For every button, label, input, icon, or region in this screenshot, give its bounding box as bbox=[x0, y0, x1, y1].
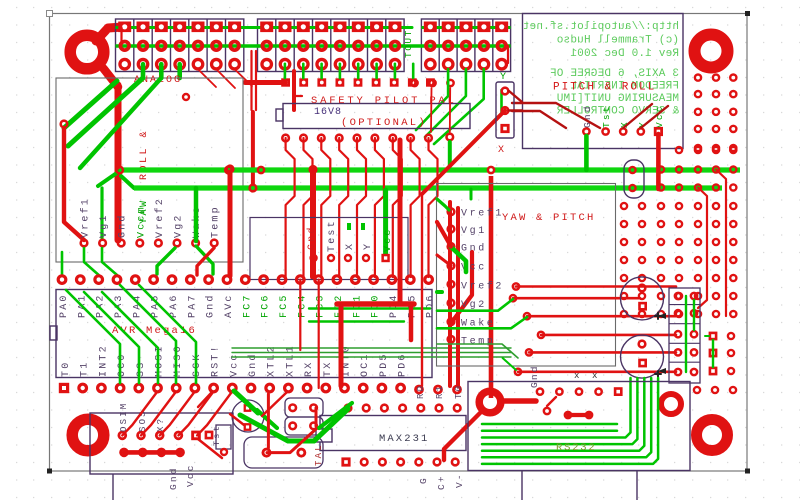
svg-text:Vccm: Vccm bbox=[136, 205, 147, 238]
green stub from IMU Gnd bbox=[584, 136, 589, 170]
label (OPTIONAL) bbox=[341, 117, 427, 129]
MAX231 top pads bbox=[345, 405, 461, 412]
label Y bbox=[500, 72, 506, 83]
pads under header J3 bbox=[411, 80, 453, 86]
ISP connector outline bbox=[90, 413, 233, 474]
extra square pads col bbox=[709, 332, 735, 376]
green bus 1 bbox=[120, 167, 740, 172]
MAX231 bottom pads bbox=[341, 457, 458, 466]
green stubs under header J1 bbox=[143, 64, 180, 78]
svg-text:C+: C+ bbox=[436, 474, 447, 490]
svg-text:Tst: Tst bbox=[212, 424, 222, 446]
svg-text:TAL: TAL bbox=[314, 443, 324, 466]
svg-text:Vref1: Vref1 bbox=[80, 197, 92, 238]
svg-text:3 AXIS, 6 DEGREE OF: 3 AXIS, 6 DEGREE OF bbox=[550, 68, 679, 80]
misc long red traces bbox=[122, 28, 509, 133]
MCU bottom row labels bbox=[61, 344, 409, 377]
svg-text:Temp: Temp bbox=[211, 205, 222, 238]
thick red power trace center bbox=[300, 140, 414, 388]
green feeds to J3 bbox=[416, 69, 502, 160]
red diag Vg1 bbox=[437, 222, 451, 266]
svg-text:OSIM: OSIM bbox=[119, 402, 129, 432]
pin header J1 (analog) bbox=[116, 19, 244, 72]
red power cross near J2 bbox=[245, 51, 302, 110]
svg-text:Vg1: Vg1 bbox=[461, 226, 487, 237]
svg-text:SCK: SCK bbox=[192, 352, 203, 377]
label ANALOG bbox=[134, 75, 182, 86]
extra pads near RS232 bbox=[544, 397, 592, 418]
MCU U1 AVR Mega16 outline bbox=[50, 290, 432, 378]
green stubs in connector bbox=[686, 296, 713, 372]
svg-text:FC4: FC4 bbox=[297, 293, 308, 318]
label X bbox=[498, 145, 504, 156]
red trace left edge bbox=[61, 121, 84, 240]
label MAX231 bbox=[379, 433, 429, 445]
red trace Vg2 feed bbox=[227, 166, 234, 276]
grid pads row 390 bbox=[694, 387, 736, 393]
pin header J3 bbox=[421, 19, 510, 72]
Vcc green drop bbox=[383, 190, 388, 254]
svg-text:Rev 1.0 Dec 2001: Rev 1.0 Dec 2001 bbox=[570, 48, 679, 60]
label RS232 bbox=[556, 442, 597, 454]
svg-text:SAFETY PILOT PAL: SAFETY PILOT PAL bbox=[311, 95, 457, 107]
green bus bridging headers bbox=[244, 28, 421, 47]
connector stubs below board bbox=[522, 471, 637, 500]
svg-text:16V8: 16V8 bbox=[314, 107, 342, 118]
IMU internal red traces bbox=[512, 103, 668, 128]
svg-text:x: x bbox=[592, 371, 597, 381]
labels below board bbox=[168, 463, 196, 490]
svg-text:T1: T1 bbox=[80, 361, 91, 377]
red traces XY to IMU bbox=[509, 91, 522, 111]
ISP pads row1 bbox=[119, 431, 201, 441]
svg-text:YAW & PITCH: YAW & PITCH bbox=[502, 212, 596, 224]
svg-text:XTL2: XTL2 bbox=[267, 344, 278, 377]
Vcc square pad bbox=[381, 254, 389, 262]
svg-text:Tst: Tst bbox=[601, 104, 612, 128]
svg-text:Vcc: Vcc bbox=[229, 352, 240, 377]
svg-text:(OPTIONAL): (OPTIONAL) bbox=[341, 117, 427, 129]
svg-text:PA7: PA7 bbox=[187, 293, 198, 318]
FC header box bbox=[250, 218, 408, 280]
via ring V1 bbox=[661, 394, 681, 414]
svg-text:Vref2: Vref2 bbox=[154, 197, 166, 238]
crystal Q1 bbox=[205, 425, 231, 455]
arrows bbox=[658, 313, 666, 374]
label YAW & PITCH bbox=[502, 212, 596, 224]
ISP pads row2 bbox=[121, 449, 184, 456]
svg-text:T0: T0 bbox=[454, 384, 464, 399]
svg-text:Gnd: Gnd bbox=[306, 225, 318, 250]
MCU top row labels bbox=[59, 293, 437, 318]
svg-text:T0: T0 bbox=[61, 361, 72, 377]
label ROLL & bbox=[139, 129, 150, 180]
extra PAL pads right bbox=[447, 134, 472, 199]
Gnd thick column bbox=[310, 166, 317, 277]
svg-text:PD5: PD5 bbox=[379, 352, 390, 377]
svg-text:(c) Trammell Hudso: (c) Trammell Hudso bbox=[557, 35, 679, 47]
svg-text:Gnd: Gnd bbox=[117, 213, 129, 238]
ISP labels bbox=[119, 402, 222, 446]
svg-text:Y: Y bbox=[363, 242, 374, 250]
svg-text:PD6: PD6 bbox=[426, 293, 437, 318]
red diag to crystal bbox=[198, 439, 222, 458]
red diag temp bbox=[197, 248, 214, 275]
svg-text:FC5: FC5 bbox=[279, 293, 290, 318]
svg-text:MAX231: MAX231 bbox=[379, 433, 429, 445]
MCU top pad row bbox=[58, 276, 432, 284]
svg-text:Vg2: Vg2 bbox=[174, 213, 185, 238]
svg-text:INT2: INT2 bbox=[98, 344, 109, 377]
bus vias bbox=[116, 167, 264, 192]
via grid right bbox=[621, 75, 737, 318]
MCU bottom pad row bbox=[59, 383, 405, 393]
svg-text:PITCH & ROLL: PITCH & ROLL bbox=[553, 82, 656, 94]
mounting hole top-right bbox=[695, 35, 728, 68]
svg-text:Gnd: Gnd bbox=[461, 243, 487, 255]
svg-text:Gnd: Gnd bbox=[247, 352, 259, 377]
red stub from IMU Vcc bbox=[656, 134, 661, 189]
svg-text:Gnd: Gnd bbox=[168, 466, 179, 490]
label XTAL bbox=[314, 443, 324, 466]
svg-text:RD: RD bbox=[416, 384, 426, 399]
svg-text:XTL1: XTL1 bbox=[285, 344, 296, 377]
red diagonals from J1 bbox=[198, 69, 252, 88]
svg-text:SS: SS bbox=[136, 361, 147, 377]
svg-text:Vcc: Vcc bbox=[185, 463, 196, 487]
RD RI TO pads bbox=[416, 384, 465, 399]
svg-text:Vref2: Vref2 bbox=[461, 280, 504, 292]
label TOUT bbox=[403, 29, 414, 58]
IC U3 MAX231 bbox=[316, 416, 466, 451]
svg-text:Vref1: Vref1 bbox=[461, 208, 504, 220]
svg-text:FC6: FC6 bbox=[261, 293, 272, 318]
green bus 2 bbox=[134, 185, 722, 190]
svg-text:MOSI: MOSI bbox=[155, 344, 166, 377]
YAW pin pads and labels bbox=[448, 208, 504, 348]
pin header J2 (servo) bbox=[258, 19, 405, 72]
green links to traces bbox=[437, 292, 527, 370]
component X1 bbox=[244, 437, 323, 468]
reset button S1 bbox=[285, 398, 323, 435]
svg-text:FC3: FC3 bbox=[316, 293, 327, 318]
red stub bus2 bbox=[251, 112, 255, 185]
RS232 connector outline bbox=[468, 382, 690, 471]
IMU notes box bbox=[523, 14, 684, 149]
capacitor C3 circle bbox=[232, 400, 264, 432]
junction x marks bbox=[574, 371, 597, 381]
svg-text:PD6: PD6 bbox=[398, 352, 409, 377]
analog pin labels bbox=[80, 197, 222, 246]
svg-text:Vg2: Vg2 bbox=[461, 300, 487, 311]
svg-text:OC1: OC1 bbox=[360, 352, 371, 377]
label PITCH & ROLL bbox=[553, 82, 656, 94]
mirrored notes text bbox=[523, 21, 679, 118]
svg-text:Gnd: Gnd bbox=[205, 293, 217, 318]
label SAFETY PILOT PAL bbox=[311, 95, 457, 107]
FC test pads bbox=[311, 255, 369, 261]
svg-text:TX: TX bbox=[323, 361, 334, 377]
svg-text:R1: R1 bbox=[435, 384, 445, 399]
svg-text:Temp: Temp bbox=[461, 336, 495, 347]
green entry to Vref1 bbox=[437, 199, 449, 210]
svg-text:TOUT: TOUT bbox=[403, 29, 414, 58]
svg-text:http://autopilot.sf.net: http://autopilot.sf.net bbox=[523, 21, 679, 33]
svg-text:Vg1: Vg1 bbox=[99, 213, 110, 238]
ISP stub below board bbox=[112, 474, 114, 500]
svg-text:RX: RX bbox=[304, 361, 315, 377]
mounting hole top-left bbox=[70, 35, 104, 69]
svg-text:AVc: AVc bbox=[224, 293, 235, 318]
svg-text:Y: Y bbox=[500, 72, 506, 83]
green test lines bbox=[232, 309, 511, 358]
wire from TL mounting hole to header bbox=[96, 27, 123, 240]
long red vertical to power ring bbox=[488, 167, 494, 398]
mounting hole bottom-right bbox=[697, 420, 728, 451]
green serial traces bbox=[482, 378, 658, 464]
RS232 inner pads bbox=[537, 387, 623, 396]
svg-text:PA6: PA6 bbox=[169, 293, 180, 318]
svg-text:Test: Test bbox=[327, 219, 338, 252]
green links to PA row bbox=[84, 188, 213, 275]
power ring V2 bbox=[479, 391, 501, 413]
label YAW bbox=[139, 198, 150, 224]
green stub left edge bbox=[61, 252, 64, 276]
label Gnd vertical bbox=[529, 364, 540, 388]
svg-text:X: X bbox=[345, 242, 356, 250]
green traces in analog block bbox=[64, 78, 161, 238]
svg-text:V-: V- bbox=[454, 472, 465, 488]
green stubs J2 to pad row bbox=[281, 64, 435, 87]
green entry to Gnd pad bbox=[451, 247, 466, 272]
PAL pads and red columns bbox=[282, 135, 437, 277]
red trace reset bbox=[198, 392, 316, 453]
svg-text:Vcc: Vcc bbox=[383, 227, 394, 252]
red weave traces in grid bbox=[698, 170, 726, 317]
bus via oval bbox=[624, 160, 644, 198]
svg-text:X: X bbox=[498, 145, 504, 156]
mounting hole bottom-left bbox=[72, 419, 104, 451]
red trace to wake bbox=[422, 111, 505, 322]
serial connector block bbox=[669, 288, 700, 383]
svg-text:x: x bbox=[574, 371, 579, 381]
svg-text:Gnd: Gnd bbox=[529, 364, 540, 388]
MAX231 bottom labels bbox=[418, 472, 465, 490]
capacitor C2 bbox=[621, 335, 664, 378]
svg-text:G: G bbox=[418, 476, 429, 484]
label 16V8 bbox=[314, 107, 342, 118]
FC test labels bbox=[306, 219, 394, 252]
IMU bottom pin labels bbox=[582, 104, 665, 128]
ANALOG sensor block outline bbox=[56, 78, 243, 262]
red pair AVcc bbox=[422, 195, 458, 386]
label AVR Mega16 bbox=[112, 325, 197, 337]
YAW & PITCH sensor block bbox=[437, 184, 616, 367]
green traces bottom center bbox=[234, 391, 352, 441]
svg-text:PA0: PA0 bbox=[59, 293, 70, 318]
capacitor C1 bbox=[621, 277, 664, 320]
IMU bottom pads bbox=[583, 127, 663, 136]
svg-text:RS232: RS232 bbox=[556, 442, 597, 454]
red diagonals MCU to ISP bbox=[122, 392, 232, 435]
XY connector bbox=[496, 82, 514, 138]
red signal traces to caps/connector bbox=[510, 283, 676, 375]
svg-text:RST!: RST! bbox=[211, 344, 222, 377]
via pad bbox=[183, 94, 189, 100]
svg-text:FC7: FC7 bbox=[242, 293, 253, 318]
PAL U2 outline bbox=[276, 104, 470, 129]
green traces in MCU bbox=[66, 285, 196, 383]
svg-text:MEASURING UNIT[IMU: MEASURING UNIT[IMU bbox=[557, 93, 679, 105]
ISP red bus bbox=[124, 450, 180, 455]
power ring arms bbox=[444, 401, 536, 460]
